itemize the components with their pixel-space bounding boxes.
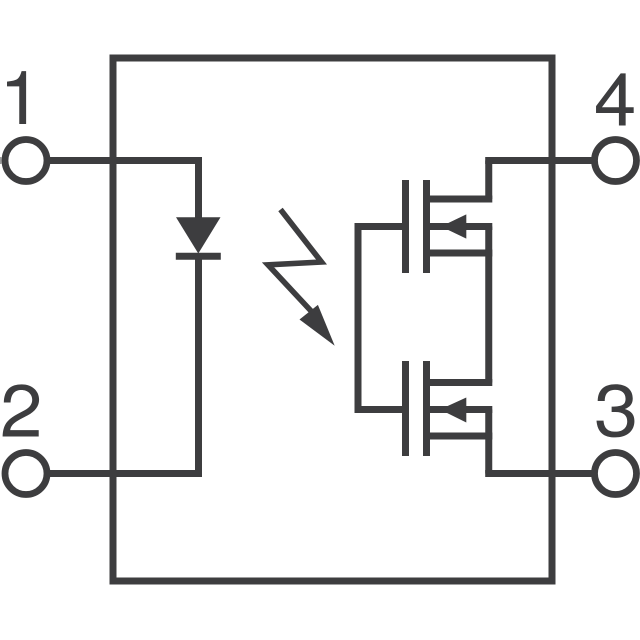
light arrow shaft [268,210,322,313]
transistor Q1 gate bar [402,180,409,273]
wire LED anode vertical [195,161,202,220]
transistor Q2 drain lead [427,433,493,440]
wire Q1 drain vertical [485,161,492,200]
pin 1 terminal circle [5,140,47,182]
wire pin4 to Q1 drain [485,157,596,164]
transistor Q2 channel bar [423,361,430,456]
pin 4 label [596,73,634,125]
IC package outline [113,58,552,581]
LED D1 cathode bar [176,253,221,260]
wire pin3 to Q2 drain [485,470,596,477]
wire LED cathode vertical [195,255,202,474]
pin 1 label [7,71,26,124]
transistor Q2 gate bar [402,361,409,456]
source-source rail wire [485,227,492,383]
transistor Q1 source lead [427,250,493,257]
transistor Q2 gate lead [355,406,403,413]
light arrow head [300,305,335,346]
transistor Q2 body arrow [440,398,466,423]
transistor Q1 gate lead [355,223,403,230]
pin 2 label [3,384,39,436]
pin 3 terminal circle [595,453,637,495]
wire pin2 to LED cathode [47,470,203,477]
pin 4 terminal circle [595,140,637,182]
gate rail wire [355,227,362,410]
transistor Q1 drain lead [427,196,493,203]
wire Q2 drain rail [485,410,492,474]
pin 2 terminal circle [5,453,47,495]
transistor Q2 source lead [427,379,493,386]
LED D1 triangle [176,217,221,253]
transistor Q1 channel bar [423,180,430,273]
pin 3 label [597,384,635,437]
wire pin1 to LED anode [47,157,203,164]
transistor Q2 body lead [427,406,493,413]
pin 1 edge stub [0,157,2,164]
transistor Q1 body arrow [441,214,466,238]
transistor Q1 body lead [427,223,493,230]
